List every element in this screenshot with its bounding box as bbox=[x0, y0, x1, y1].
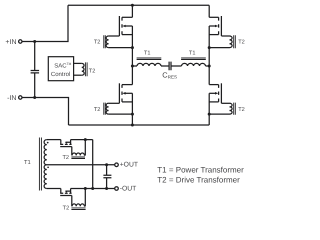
svg-text:-IN: -IN bbox=[7, 95, 16, 102]
svg-text:+IN: +IN bbox=[5, 39, 16, 46]
node output cap top (junction) bbox=[105, 163, 108, 166]
mosfet QR2 (lower rectifier) bbox=[60, 189, 72, 196]
wire lower secondary to rectifier QR2 bbox=[47, 188, 61, 190]
wire right leg drain Q4 bbox=[208, 66, 210, 85]
mosfet Q3 (lower-left) bbox=[119, 83, 132, 103]
svg-text:T1: T1 bbox=[189, 51, 196, 57]
svg-text:+OUT: +OUT bbox=[120, 162, 138, 169]
wire Q2 gate bbox=[221, 35, 229, 37]
wire Q1 gate bbox=[109, 35, 120, 37]
transformer T2 winding (gate drive Q4) bbox=[230, 103, 236, 115]
polarity dot lower secondary bbox=[47, 166, 49, 168]
inductor T1 primary right winding bbox=[181, 58, 206, 66]
wire C_RES to T1 primary right bbox=[171, 65, 182, 67]
mosfet Q4 (lower-right) bbox=[209, 83, 221, 103]
node Q4 source / T2 return (junction) bbox=[208, 113, 211, 116]
svg-text:T2: T2 bbox=[62, 155, 69, 161]
capacitor output (wires) bbox=[106, 165, 108, 189]
wire T2 return to source rail Q3 bbox=[109, 113, 133, 115]
node Q2 source / T2 return (junction) bbox=[208, 46, 211, 49]
svg-text:CRES: CRES bbox=[162, 71, 177, 80]
polarity dot upper secondary bbox=[47, 142, 49, 144]
node output cap bottom (junction) bbox=[105, 187, 108, 190]
wire T2 return to source rail Q1 bbox=[109, 47, 133, 49]
wire upper branch down to -OUT rail bbox=[92, 140, 94, 189]
wire SAC control to T2 primary (bottom) bbox=[74, 74, 82, 76]
terminal -IN bbox=[19, 96, 22, 99]
svg-text:T1: T1 bbox=[144, 51, 151, 57]
mosfet QR1 (upper rectifier) bbox=[60, 140, 72, 147]
svg-text:T2: T2 bbox=[238, 107, 245, 113]
node input cap top (junction) bbox=[33, 40, 36, 43]
capacitor input (plates) bbox=[31, 71, 39, 73]
node top bus / left leg (junction) bbox=[131, 4, 134, 7]
controller U1 SAC Control box bbox=[48, 57, 73, 81]
wire left leg drain Q1 bbox=[131, 5, 133, 17]
svg-text:-OUT: -OUT bbox=[120, 185, 137, 192]
node B right bridge midpoint (junction) bbox=[208, 65, 211, 68]
inductor T1 secondary lower winding bbox=[44, 165, 47, 189]
svg-text:T1: T1 bbox=[24, 160, 31, 166]
svg-text:Control: Control bbox=[51, 71, 70, 78]
wire -IN to bottom bus bbox=[22, 98, 69, 126]
capacitor C_RES bbox=[169, 62, 171, 71]
node bottom bus / left leg (junction) bbox=[131, 124, 134, 127]
wire T1 right to node B bbox=[206, 65, 210, 67]
wire upper secondary to rectifier QR1 bbox=[47, 139, 61, 141]
wire Q4 gate bbox=[221, 102, 229, 104]
node QR1 T2 tap (junction) bbox=[84, 138, 87, 141]
svg-text:T2 = Drive Transformer: T2 = Drive Transformer bbox=[157, 175, 240, 184]
transformer T2 winding (QR2 drive) bbox=[71, 189, 85, 210]
wire T2 return to source rail Q4 bbox=[209, 113, 229, 115]
terminal -OUT bbox=[115, 187, 119, 191]
wire +IN to top bus bbox=[22, 5, 68, 41]
transformer T2 winding (gate drive Q2) bbox=[230, 35, 236, 48]
mosfet Q1 (upper-left) bbox=[119, 16, 132, 36]
transformer T2 winding (gate drive Q1) bbox=[104, 35, 109, 48]
node A left bridge midpoint (junction) bbox=[131, 65, 134, 68]
svg-text:T2: T2 bbox=[238, 40, 245, 46]
transformer T2 winding (QR1 drive) bbox=[71, 140, 85, 159]
wire left leg drain Q3 bbox=[131, 66, 133, 85]
terminal +IN bbox=[19, 40, 22, 43]
wire T1 left to C_RES bbox=[161, 65, 169, 67]
wire Q1 source rail bbox=[131, 26, 133, 66]
svg-text:T2: T2 bbox=[94, 107, 101, 113]
node Q1 source / T2 return (junction) bbox=[131, 46, 134, 49]
wire Q4 source rail bbox=[208, 93, 210, 125]
wire T2 return to source rail Q2 bbox=[209, 47, 229, 49]
wire Q3 source rail bbox=[131, 93, 133, 125]
top bus wire bbox=[68, 4, 209, 6]
inductor T1 primary left winding bbox=[137, 58, 162, 66]
capacitor output (plates) bbox=[103, 175, 111, 178]
node Q3 source / T2 return (junction) bbox=[131, 113, 134, 116]
node QR2 T2 tap (junction) bbox=[84, 187, 87, 190]
wire Q2 source rail bbox=[208, 26, 210, 66]
svg-text:T2: T2 bbox=[63, 206, 70, 212]
mosfet Q2 (upper-right) bbox=[209, 16, 221, 36]
transformer T1 secondary core bbox=[39, 138, 41, 191]
capacitor input (wires) bbox=[34, 42, 36, 98]
wire center tap to +OUT bbox=[47, 164, 115, 166]
transformer T2 winding (gate drive Q3) bbox=[104, 103, 109, 115]
bottom bus wire bbox=[69, 124, 210, 126]
svg-text:T2: T2 bbox=[89, 68, 96, 74]
wire Q3 gate bbox=[109, 102, 120, 104]
wire -OUT rail bbox=[71, 188, 115, 190]
terminal +OUT bbox=[115, 163, 119, 167]
inductor T1 secondary upper winding bbox=[44, 140, 47, 165]
svg-text:T1 = Power Transformer: T1 = Power Transformer bbox=[157, 166, 244, 175]
wire right leg drain Q2 bbox=[208, 5, 210, 17]
node upper branch / -OUT rail (junction) bbox=[91, 187, 94, 190]
svg-text:T2: T2 bbox=[94, 40, 101, 46]
wire node A to T1 primary left bbox=[132, 65, 137, 67]
wire QR1 source to output drop bbox=[71, 139, 93, 141]
node input cap bottom (junction) bbox=[33, 96, 36, 99]
wire SAC control to T2 primary (top) bbox=[74, 62, 82, 64]
transformer T2 primary winding (at SAC control) bbox=[82, 62, 87, 76]
